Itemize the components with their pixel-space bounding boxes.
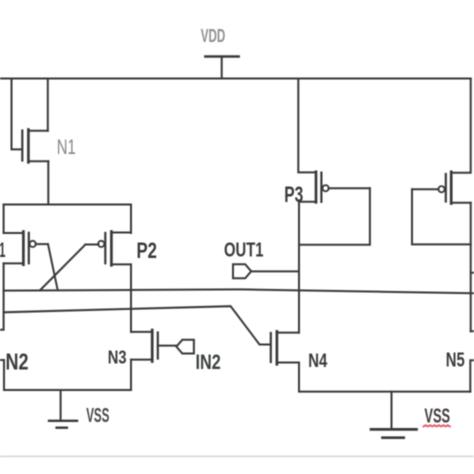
- wire OUT2 stub at edge: [471, 272, 474, 274]
- svg-text:N2: N2: [6, 349, 29, 375]
- ground symbol left: [49, 421, 77, 428]
- svg-text:P3: P3: [284, 182, 303, 207]
- svg-text:N4: N4: [308, 351, 327, 372]
- transistor N3: [131, 330, 176, 362]
- svg-text:VDD: VDD: [201, 26, 226, 46]
- wire P4 gate wrap to drain: [412, 189, 471, 244]
- wire P2 source drop: [130, 205, 132, 234]
- wire N2 source stub: [0, 360, 4, 390]
- wire N1 gate from rail: [12, 79, 22, 150]
- wire net2 long horizontal to N4 gate: [4, 306, 270, 344]
- wire P1 gate cross-couple diagonal: [48, 244, 58, 290]
- wire P2 drain drop to N3: [130, 264, 132, 332]
- wire OUT1 to P3 drain: [251, 270, 299, 272]
- wire VSS stub left: [60, 390, 62, 421]
- transistor P4: [412, 172, 471, 204]
- transistor P1: [4, 232, 48, 265]
- wire P4 source from rail: [451, 79, 471, 173]
- wire N1 source down to latch top: [47, 161, 49, 204]
- svg-text:1: 1: [0, 239, 6, 262]
- svg-text:N5: N5: [446, 350, 465, 372]
- transistor P3: [299, 172, 370, 203]
- svg-text:N3: N3: [108, 346, 127, 367]
- wire N1 drain to VDD rail: [47, 79, 49, 131]
- wire latch top edge: [4, 204, 131, 206]
- wire P4 drain down to N5: [470, 203, 472, 331]
- wire P3 source from rail: [298, 79, 316, 173]
- port OUT1: [233, 264, 251, 278]
- transistor P2: [85, 232, 131, 266]
- wire P3 gate wrap to drain: [299, 188, 370, 245]
- wire N3 source to bottom edge: [130, 360, 132, 390]
- wire VSS stub right: [391, 392, 393, 430]
- svg-text:VSS: VSS: [86, 405, 109, 427]
- wire N2 N3 source bottom edge: [4, 389, 131, 391]
- port IN2: [176, 340, 194, 354]
- wire P2 gate cross-couple diagonal: [40, 245, 85, 291]
- bottom rule line: [0, 455, 474, 457]
- wire VDD rail: [0, 78, 471, 80]
- wire P3 drain down to N4: [298, 202, 300, 333]
- svg-text:P2: P2: [137, 238, 158, 263]
- spellcheck squiggle under VSS: [424, 425, 450, 426]
- svg-text:VSS: VSS: [424, 405, 450, 427]
- wire P1 source drop: [3, 205, 5, 234]
- svg-text:IN2: IN2: [196, 351, 221, 374]
- wire N5 drain stub: [471, 330, 474, 332]
- wire P1 drain drop to N2: [0, 263, 4, 329]
- transistor N1: [22, 130, 48, 163]
- transistor N4: [271, 331, 299, 364]
- wire net1 long horizontal: [4, 289, 474, 293]
- wire N5 source stub: [470, 360, 474, 391]
- ground symbol right: [371, 429, 417, 437]
- wire N4 source bottom edge: [299, 363, 470, 392]
- power symbol VDD: [205, 57, 238, 79]
- svg-text:OUT1: OUT1: [224, 240, 264, 262]
- svg-text:N1: N1: [57, 136, 76, 159]
